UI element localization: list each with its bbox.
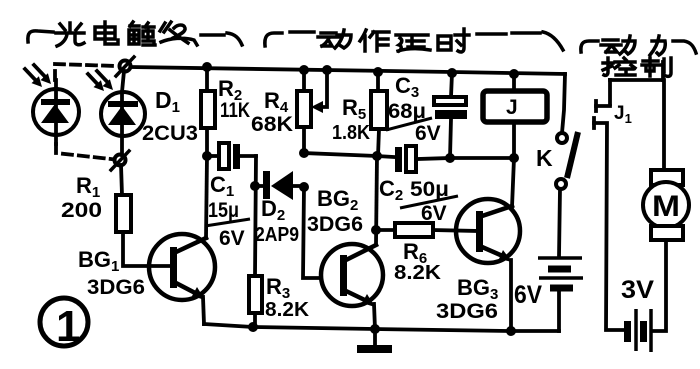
R4 wiper arrow (311, 70, 327, 113)
wire dashed link top (55, 64, 116, 80)
svg-text:8.2K: 8.2K (265, 299, 310, 321)
svg-text:11K: 11K (220, 99, 250, 122)
wire top rail (131, 67, 565, 74)
title 光电触发 (photoelectric trigger) (56, 22, 197, 46)
label C3 (386, 73, 441, 145)
label R5 (332, 95, 370, 144)
bracket right of title3 (673, 41, 696, 53)
svg-text:68K: 68K (251, 113, 293, 136)
svg-text:15μ: 15μ (208, 199, 239, 222)
resistor R2 (201, 91, 215, 128)
resistor R3 (249, 276, 262, 313)
capacitor C1 (207, 143, 256, 169)
wire R2/collector vertical (206, 67, 207, 238)
svg-text:3DG6: 3DG6 (436, 300, 498, 323)
svg-text:200: 200 (61, 199, 102, 222)
wire R3/D2 vertical (255, 156, 256, 326)
wire bottom rail (204, 324, 559, 331)
wire dashed link bottom (56, 144, 111, 159)
wire D2 down to BG2 base (303, 187, 321, 278)
terminal bottom (circle with slash) (111, 151, 129, 170)
svg-text:6V: 6V (415, 122, 441, 145)
char 动 (318, 30, 351, 48)
label 6V battery (514, 281, 542, 309)
char 力 (650, 36, 665, 55)
bracket right of title2 (477, 32, 563, 50)
light arrows into D1 (88, 71, 113, 91)
label R4 (251, 88, 293, 136)
wire R4 branch (302, 70, 306, 153)
photodiode D1 (101, 92, 145, 136)
svg-text:3DG6: 3DG6 (307, 213, 363, 236)
svg-text:K: K (536, 145, 553, 171)
label R2 (218, 76, 250, 122)
label 3V (621, 276, 654, 304)
transistor BG3 (456, 199, 520, 263)
char 触 (129, 22, 155, 45)
photodiode spare (dashed, left) (33, 80, 79, 144)
battery 3V (624, 309, 651, 352)
label BG2 (307, 186, 363, 236)
svg-text:3V: 3V (621, 276, 654, 304)
bracket right of title1 (201, 33, 242, 45)
wire R1 to BG1 base (123, 232, 149, 266)
char 控 (603, 58, 635, 75)
battery 6V (538, 258, 583, 331)
terminal top (circle with slash) (116, 57, 134, 76)
char 延 (396, 35, 430, 51)
motor M (643, 170, 689, 331)
svg-text:2CU3: 2CU3 (142, 122, 198, 145)
wire BG2 collector vertical (376, 156, 377, 244)
svg-text:6V: 6V (219, 227, 245, 250)
power-control section: J1 connector (594, 80, 625, 330)
wire C2/C3 to relay line (450, 156, 514, 160)
transistor BG2 (321, 244, 383, 307)
wire BG1 emitter down (203, 297, 204, 324)
svg-text:6V: 6V (514, 281, 542, 309)
wire D1 branch vertical (121, 71, 124, 195)
label D1 (142, 87, 198, 145)
svg-text:1: 1 (56, 302, 80, 351)
svg-text:J: J (506, 96, 518, 119)
resistor R6 (376, 223, 479, 237)
bracket left of title1 (28, 31, 53, 42)
bracket left of title2 (265, 32, 314, 46)
svg-text:3DG6: 3DG6 (87, 276, 145, 299)
wire BG2 emitter down (374, 304, 375, 329)
char 制 (642, 58, 671, 76)
switch K (556, 132, 578, 257)
label BG1 (78, 247, 145, 299)
wire K switch drop (562, 74, 565, 133)
diode D2 (255, 171, 304, 200)
wire relay to BG3 collector (512, 158, 514, 207)
char 动 (601, 36, 635, 54)
light arrows into left photodiode (25, 65, 51, 87)
resistor R5 (371, 72, 387, 156)
label D2 (255, 196, 299, 246)
label R1 (61, 173, 102, 222)
char 作 (360, 30, 389, 51)
bracket left of title3 (581, 41, 598, 52)
figure number 1 (40, 298, 88, 351)
label J1 (614, 103, 632, 126)
ground (357, 329, 392, 353)
resistor R4 (297, 91, 311, 127)
label C1 (205, 172, 250, 250)
title 动力 (power) (601, 36, 665, 55)
svg-text:1.8K: 1.8K (332, 122, 370, 144)
label K (536, 145, 553, 171)
wire mid horizontal line (304, 153, 394, 157)
char 时 (438, 29, 469, 52)
transistor BG1 (149, 234, 215, 300)
label R3 (265, 274, 310, 321)
wire BG3 emitter down (509, 260, 513, 331)
char 光 (56, 23, 84, 46)
capacitor C2 (395, 146, 450, 172)
resistor R1 (116, 195, 131, 232)
char 发 (160, 22, 197, 45)
title 动作延时 (action delay) (318, 29, 469, 52)
capacitor C3 (434, 73, 467, 158)
label BG3 (436, 275, 498, 323)
svg-text:M: M (652, 190, 680, 223)
svg-text:2AP9: 2AP9 (255, 224, 299, 246)
title 控制 (control) (603, 58, 671, 76)
relay J (483, 74, 547, 158)
svg-text:6V: 6V (421, 202, 447, 225)
char 电 (95, 22, 118, 44)
label R6 (394, 239, 442, 284)
label C2 (379, 176, 458, 225)
wire top link to motor (610, 62, 664, 170)
svg-text:8.2K: 8.2K (394, 262, 442, 284)
